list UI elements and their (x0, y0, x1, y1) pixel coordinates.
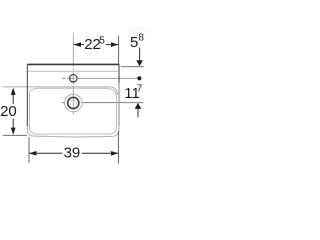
svg-text:7: 7 (137, 84, 143, 95)
svg-text:20: 20 (0, 103, 17, 120)
svg-text:8: 8 (138, 32, 144, 43)
svg-text:39: 39 (64, 145, 81, 162)
svg-text:5: 5 (99, 35, 105, 46)
svg-text:5: 5 (130, 34, 138, 51)
